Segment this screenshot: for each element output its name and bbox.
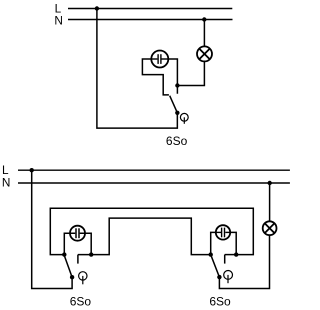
- wire: glow lamp G2 right lead down: [80, 233, 91, 254]
- wire: inner traveller bridge (S2 right contact to S3 left contact): [78, 218, 211, 255]
- junction dot: S2 common: [70, 275, 74, 279]
- pilot light indicator of S2: [79, 272, 87, 285]
- S2 right contact tick: [77, 255, 79, 264]
- lamp E2: [263, 221, 277, 235]
- junction dot on N line: [202, 17, 206, 21]
- wire: S3 common to lamp E2 bottom: [219, 235, 269, 288]
- junction dot: S2 left contact: [62, 252, 66, 256]
- wire: glow lamp G2 left lead: [64, 233, 75, 254]
- wire: glow lamp left lead to S1 left contact (Z wire): [142, 59, 169, 95]
- wire: L feed down, across bottom, up to switch common: [97, 9, 177, 129]
- pilot light indicator of S1: [180, 113, 188, 123]
- wire: N line (bottom): [18, 182, 290, 184]
- junction dot: S1 right contact node: [175, 83, 179, 87]
- svg-text:N: N: [2, 175, 11, 189]
- pilot light indicator of S3: [224, 271, 233, 284]
- junction dot on L line: [95, 6, 99, 10]
- wire: lamp E2 to N line: [269, 183, 271, 221]
- svg-text:N: N: [54, 13, 63, 27]
- junction dot on N line (bottom): [268, 181, 272, 185]
- lamp E1: [197, 46, 212, 61]
- wire: L feed down and to S2 common: [32, 170, 72, 288]
- wire: glow lamp G3 left lead: [211, 232, 217, 254]
- wire: lamp E1 to N line: [203, 20, 205, 47]
- wire: S1 right contact to lamp E1 bottom: [177, 62, 204, 86]
- junction dot: G2 right lead on contact row: [89, 252, 93, 256]
- wire: outer traveller loop (S2 left contact to S3 right contact): [50, 208, 253, 254]
- junction dot: G3 right lead on contact row: [234, 252, 238, 256]
- svg-text:6So: 6So: [166, 134, 188, 148]
- wire: glow lamp right lead down (S1 right contact): [168, 59, 177, 94]
- wire: L line (bottom): [18, 169, 290, 171]
- glow lamp (neon) inside S2: [70, 226, 85, 241]
- wire: L line (top): [68, 8, 232, 10]
- switch S3 lever: [211, 256, 219, 277]
- junction dot: S3 left contact: [209, 252, 213, 256]
- switch S1 lever: [170, 96, 178, 113]
- junction dot: S3 common: [217, 275, 221, 279]
- glow lamp (neon) inside S1: [151, 51, 168, 68]
- svg-text:6So: 6So: [209, 294, 231, 308]
- wire: S3 right contact row: [225, 254, 237, 256]
- wire: glow lamp G3 right lead down: [230, 232, 236, 254]
- wire: N line (top): [68, 19, 233, 21]
- glow lamp (neon) inside S3: [216, 225, 230, 239]
- svg-text:6So: 6So: [70, 294, 92, 308]
- junction dot: switch S1 common: [175, 111, 179, 115]
- junction dot on L line (bottom): [30, 168, 34, 172]
- switch S2 lever: [65, 256, 73, 277]
- S3 right contact tick: [224, 255, 226, 264]
